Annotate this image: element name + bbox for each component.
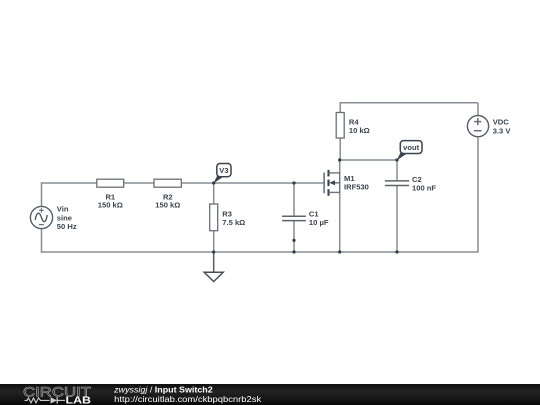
- svg-text:150 kΩ: 150 kΩ: [155, 201, 180, 210]
- label C1 / 10 µF: [309, 210, 329, 228]
- CircuitLab logo: diode symbol: [51, 397, 58, 403]
- junction: C2 on ground rail: [395, 250, 398, 253]
- transistor M1 (NMOS IRF530): [324, 170, 340, 196]
- resistor R2: [154, 179, 181, 187]
- label M1 / IRF530: [344, 174, 369, 192]
- wire: R4 top lead: [339, 103, 341, 113]
- wire: R2 to node V3 junction: [182, 182, 214, 184]
- resistor R1: [97, 179, 124, 187]
- junction: M1 source on ground rail: [338, 250, 341, 253]
- wire: top-left horizontal Vin to R1: [41, 182, 97, 184]
- svg-text:LAB: LAB: [66, 396, 92, 405]
- ground symbol: [204, 252, 223, 282]
- junction: C1 bottom terminal: [292, 239, 295, 242]
- svg-text:V3: V3: [219, 166, 228, 175]
- label R1 / 150 kΩ: [98, 193, 123, 210]
- wire: top rail R4 to VDC: [340, 102, 479, 104]
- svg-text:100 nF: 100 nF: [412, 184, 436, 193]
- wire: C1 top lead: [293, 183, 295, 216]
- label Vin value: Vin / sine / 50 Hz: [57, 205, 77, 231]
- svg-text:3.3 V: 3.3 V: [493, 126, 512, 135]
- wire: VDC bottom lead down right side to ground rail: [477, 136, 479, 252]
- capacitor C2: [385, 181, 409, 186]
- resistor R3: [210, 204, 218, 231]
- source Vin (sine): [30, 206, 52, 228]
- svg-text:zwyssigj / Input Switch2: zwyssigj / Input Switch2: [113, 385, 213, 395]
- label C2 / 100 nF: [412, 175, 436, 193]
- junction: C1 on ground rail: [292, 250, 295, 253]
- wire: left vertical from Vin bottom to ground rail: [41, 229, 43, 253]
- wire: node V3 to MOSFET gate (passes C1 tap): [214, 182, 324, 184]
- label R3 / 7.5 kΩ: [222, 209, 245, 227]
- transistor M1 body arrow: [329, 180, 335, 185]
- junction: C1 tap on input wire: [292, 181, 295, 184]
- junction: R3 on ground rail: [212, 250, 215, 253]
- CircuitLab logo: waveform resistor zigzag: [25, 398, 50, 403]
- wire: left vertical from top rail to Vin top: [41, 183, 43, 206]
- svg-text:7.5 kΩ: 7.5 kΩ: [222, 218, 245, 227]
- wire: MOSFET source to ground rail: [339, 192, 341, 252]
- wire: C1 terminal to ground rail: [293, 240, 295, 252]
- node V3 flag: [213, 164, 231, 184]
- wire: ground rail (bottom): [41, 251, 479, 253]
- wire: R4 bottom lead: [339, 138, 341, 160]
- wire: VDC top lead: [477, 103, 479, 116]
- svg-text:150 kΩ: 150 kΩ: [98, 201, 123, 210]
- wire: C2 top lead from vout node: [396, 160, 398, 181]
- node vout flag: [397, 141, 422, 161]
- wire: mid rail drain/R4 to vout node: [340, 159, 397, 161]
- junction: drain/R4 on mid rail: [338, 158, 341, 161]
- svg-text:IRF530: IRF530: [344, 183, 369, 192]
- svg-text:50 Hz: 50 Hz: [57, 222, 77, 231]
- svg-text:10 µF: 10 µF: [309, 218, 329, 227]
- label R4 / 10 kΩ: [349, 118, 370, 136]
- wire: C2 bottom lead to ground rail: [396, 186, 398, 252]
- capacitor C1: [282, 216, 306, 220]
- label VDC / 3.3 V: [493, 118, 512, 136]
- wire: C1 bottom lead: [293, 221, 295, 241]
- resistor R4: [336, 113, 344, 139]
- wire: R3 bottom lead to ground rail: [213, 231, 215, 252]
- junction: vout node on mid rail: [395, 158, 398, 161]
- wire: MOSFET drain up to mid rail: [339, 160, 341, 173]
- wire: R3 top lead: [213, 183, 215, 204]
- svg-text:10 kΩ: 10 kΩ: [349, 126, 370, 135]
- svg-text:vout: vout: [403, 143, 420, 152]
- source VDC 3.3V: [467, 116, 488, 137]
- svg-text:http://circuitlab.com/ckbpqbcn: http://circuitlab.com/ckbpqbcnrb2sk: [114, 394, 262, 404]
- wire: R1 to R2: [124, 182, 155, 184]
- junction: V3 node on input wire: [212, 181, 215, 184]
- label R2 / 150 kΩ: [155, 193, 180, 210]
